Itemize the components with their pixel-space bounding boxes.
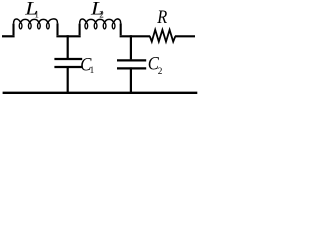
wire bottom rail (3, 92, 198, 94)
wire C2 bottom lead (130, 67, 132, 94)
label C1 (80, 54, 94, 75)
wire output right (175, 35, 195, 37)
inductor L1 (14, 19, 58, 35)
label L1 (24, 0, 39, 19)
inductor L2 (80, 19, 121, 35)
resistor R (150, 30, 176, 42)
wire C2 top lead (130, 35, 132, 59)
svg-text:2: 2 (158, 66, 163, 76)
wire input left (2, 35, 15, 37)
wire C1 top lead (67, 35, 69, 58)
svg-text:2: 2 (99, 10, 104, 20)
L2 left leg (79, 24, 81, 36)
label C2 (148, 52, 163, 76)
L1 right leg (56, 23, 58, 35)
L1 left leg (12, 24, 14, 36)
L1 arches (14, 19, 58, 24)
label L2 (90, 0, 104, 20)
svg-text:1: 1 (34, 9, 39, 19)
L2 arches (80, 19, 121, 24)
capacitor C2 plates (117, 60, 146, 68)
svg-text:1: 1 (90, 65, 95, 75)
L2 loops (85, 23, 115, 29)
svg-text:R: R (156, 6, 167, 27)
wire C1 bottom lead (67, 66, 69, 94)
L1 loops (19, 23, 49, 29)
L2 right leg (120, 23, 122, 35)
wire between L2 and R (120, 35, 151, 37)
wire between L1 and L2 (56, 35, 80, 37)
capacitor C1 plates (54, 59, 82, 67)
